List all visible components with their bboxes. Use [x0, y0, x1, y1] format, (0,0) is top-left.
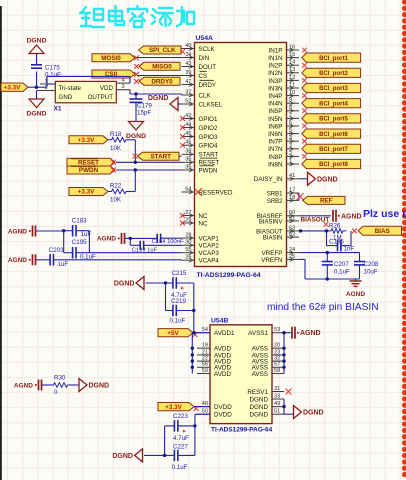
svg-text:DGND: DGND: [249, 404, 268, 411]
svg-text:CS: CS: [199, 73, 208, 80]
svg-text:AVSS: AVSS: [252, 371, 268, 378]
svg-text:Tri-state: Tri-state: [59, 85, 82, 92]
svg-text:SRB2: SRB2: [267, 199, 283, 205]
svg-text:AGND: AGND: [97, 236, 116, 243]
svg-text:BCI_port2: BCI_port2: [319, 71, 348, 77]
ground DGND port (C215): [114, 277, 167, 290]
svg-text:43: 43: [185, 61, 191, 67]
svg-text:GPIO1: GPIO1: [199, 116, 218, 123]
net label RESET: [67, 158, 182, 166]
svg-text:AVDD1: AVDD1: [214, 330, 235, 337]
capacitor C219 0.1uF: [166, 283, 196, 333]
svg-text:TI-ADS1299-PAG-64: TI-ADS1299-PAG-64: [211, 427, 273, 434]
svg-text:C184 100nF: C184 100nF: [152, 239, 184, 245]
wire AVSS rail to AGND: [282, 331, 291, 374]
svg-text:49: 49: [274, 401, 280, 407]
net label MISO0: [134, 62, 180, 70]
svg-text:20: 20: [274, 343, 280, 349]
svg-text:MISO0: MISO0: [152, 64, 172, 71]
capacitor C195 0.1uF: [64, 231, 96, 261]
svg-text:C195: C195: [72, 239, 87, 246]
svg-text:+3.3V: +3.3V: [165, 404, 182, 411]
svg-text:DGND: DGND: [89, 383, 110, 390]
svg-text:+3.3V: +3.3V: [78, 137, 95, 144]
svg-text:26: 26: [185, 255, 191, 261]
svg-text:START: START: [150, 153, 171, 160]
net label MOSI0: [92, 54, 182, 62]
svg-text:R18: R18: [110, 131, 122, 138]
svg-text:VREFN: VREFN: [261, 257, 283, 264]
svg-text:GND: GND: [59, 94, 73, 101]
svg-text:CLK: CLK: [199, 92, 212, 99]
svg-text:44: 44: [185, 122, 191, 128]
svg-text:IN1N: IN1N: [268, 55, 283, 62]
svg-text:BCI_port1: BCI_port1: [319, 56, 348, 62]
svg-text:52: 52: [185, 98, 191, 104]
ground DGND below X1 pin2: [26, 91, 46, 118]
svg-text:23: 23: [274, 349, 280, 355]
svg-text:DVDD: DVDD: [214, 412, 232, 419]
capacitor C175: [31, 54, 61, 88]
svg-text:C183: C183: [72, 217, 87, 224]
svg-text:C207: C207: [334, 261, 349, 268]
svg-text:AVSS1: AVSS1: [248, 330, 268, 337]
capacitor C199 1uF: [130, 238, 181, 253]
svg-text:15pF: 15pF: [137, 110, 151, 117]
U54A left pins: [180, 43, 233, 265]
svg-text:36: 36: [185, 157, 191, 163]
note Plz use th: [363, 208, 406, 220]
net label BIASOUT text: [301, 217, 330, 227]
svg-text:0.1uF: 0.1uF: [172, 464, 188, 471]
svg-text:DGND: DGND: [126, 133, 146, 140]
svg-text:AGND: AGND: [341, 213, 362, 220]
svg-text:IN6N: IN6N: [268, 131, 283, 138]
ground AGND at AVSS1: [292, 327, 321, 339]
svg-text:BIASINV: BIASINV: [259, 219, 283, 225]
capacitor C179: [130, 94, 153, 122]
op-amp U54B ADS1299 body: [210, 318, 273, 434]
svg-text:C219: C219: [171, 298, 186, 305]
wire BIASOUT node: [299, 229, 329, 232]
svg-text:VDD: VDD: [100, 85, 114, 92]
svg-text:C208: C208: [364, 261, 379, 268]
svg-text:DOUT: DOUT: [199, 64, 217, 71]
svg-text:DGND: DGND: [317, 176, 338, 183]
svg-text:OUTPUT: OUTPUT: [88, 94, 114, 101]
svg-text:IN1P: IN1P: [269, 47, 283, 54]
ground DGND (R30): [71, 379, 109, 392]
svg-text:+3.3V: +3.3V: [4, 84, 21, 91]
svg-text:SPI_CLK: SPI_CLK: [149, 47, 176, 54]
net label DRDY0: [134, 77, 180, 85]
svg-text:AGND: AGND: [8, 257, 27, 264]
wire to VCAP4: [54, 259, 182, 261]
capacitor C207 0.1uF: [322, 253, 350, 279]
svg-text:C203: C203: [49, 247, 64, 254]
svg-text:DGND: DGND: [303, 410, 324, 417]
svg-text:34: 34: [185, 52, 191, 58]
power flag +3.3V (U54B): [158, 403, 199, 412]
ground AGND at BIASREF: [299, 210, 362, 222]
svg-text:IN7N: IN7N: [268, 146, 283, 153]
capacitor C203 1uF: [49, 247, 69, 268]
svg-text:4.7uF: 4.7uF: [173, 435, 189, 442]
svg-text:IN5N: IN5N: [268, 116, 283, 123]
capacitor C227 0.1uF: [163, 426, 195, 471]
svg-text:22: 22: [202, 356, 208, 362]
port BCI_port8: [302, 159, 361, 168]
net label REF (SRB): [297, 193, 346, 205]
capacitor C185 1nF: [327, 231, 355, 253]
svg-text:10K: 10K: [110, 197, 122, 204]
note mind the 62# pin BIASIN: [267, 302, 379, 313]
svg-text:46: 46: [185, 140, 191, 146]
svg-text:X1: X1: [54, 106, 62, 113]
svg-text:55: 55: [185, 247, 191, 253]
ground AGND (C184/C199): [97, 233, 132, 244]
port BCI_port6: [302, 129, 361, 138]
oscillator X1 body: [54, 81, 117, 112]
op-amp U54A ADS1299 body: [195, 35, 287, 279]
right red dotted page edge: [402, 0, 406, 477]
ground DGND below C179: [126, 122, 146, 141]
svg-text:REF: REF: [320, 198, 333, 205]
svg-text:DGND: DGND: [26, 38, 46, 45]
svg-text:28: 28: [185, 232, 191, 238]
ground AGND (C183/C195): [8, 226, 66, 237]
svg-text:DGND: DGND: [249, 412, 268, 419]
svg-text:21: 21: [202, 349, 208, 355]
net label BIAS: [352, 226, 402, 235]
svg-text:DVDD: DVDD: [214, 404, 232, 411]
resistor R26 1M: [328, 222, 347, 241]
wire +3.3V to DVDD: [194, 406, 210, 408]
wire VDD loop over X1: [47, 76, 130, 84]
port BCI_port2: [302, 68, 361, 77]
svg-text:BIASIN: BIASIN: [263, 236, 283, 242]
no-connect X marks on INxP pins: [302, 48, 307, 159]
ground AGND below C207/C208: [346, 279, 365, 298]
svg-text:SRB1: SRB1: [267, 191, 283, 197]
capacitor C183 1uF: [64, 217, 92, 238]
wire R22 to PWDN net: [130, 170, 136, 192]
svg-text:40: 40: [185, 43, 191, 49]
svg-text:IN8P: IN8P: [269, 154, 283, 161]
svg-text:IN5P: IN5P: [269, 108, 283, 115]
svg-text:51: 51: [274, 409, 280, 415]
svg-text:NC: NC: [199, 220, 208, 227]
svg-text:VCAP4: VCAP4: [199, 258, 220, 265]
left page edge: [0, 6, 2, 480]
wire AVDD rail: [191, 331, 210, 374]
svg-text:59: 59: [202, 368, 208, 374]
svg-text:AGND: AGND: [346, 291, 365, 298]
wire R18 to RESET net: [130, 140, 136, 163]
U54B right pins: [247, 327, 284, 419]
svg-text:0: 0: [54, 389, 58, 396]
svg-text:PWDN: PWDN: [79, 167, 99, 174]
svg-text:BCI_port8: BCI_port8: [319, 162, 348, 168]
svg-text:PWDN: PWDN: [199, 167, 218, 174]
ground DGND at DAISY_IN: [299, 172, 338, 185]
wire to VCAP3: [89, 252, 181, 254]
wire DGND rail right: [282, 399, 293, 414]
resistor R22 10K: [108, 183, 130, 204]
wire VREFN to AGND rail: [299, 259, 360, 280]
svg-text:IN4N: IN4N: [268, 101, 283, 108]
svg-text:BCI_port6: BCI_port6: [319, 132, 348, 138]
power flag +3.3V (X1): [1, 83, 28, 91]
resistor R30 0: [50, 375, 71, 397]
svg-text:10uF: 10uF: [364, 269, 378, 276]
X1 pin 1: [40, 78, 55, 84]
svg-text:BCI_port4: BCI_port4: [319, 101, 348, 107]
ground DGND port (C227): [112, 449, 164, 462]
svg-text:58: 58: [274, 368, 280, 374]
port BCI_port4: [302, 99, 361, 108]
svg-text:IN6P: IN6P: [269, 123, 283, 130]
power flag +3.3V (R18): [69, 136, 108, 144]
svg-text:35: 35: [185, 164, 191, 170]
svg-text:AGND: AGND: [14, 382, 33, 389]
ground AGND (C203): [8, 254, 50, 265]
svg-text:10K: 10K: [110, 145, 122, 152]
ground DGND port (U54B right): [294, 406, 324, 419]
X mark RESV1: [286, 389, 292, 395]
svg-text:AVDD: AVDD: [214, 371, 231, 378]
svg-text:C223: C223: [173, 413, 188, 420]
svg-text:37: 37: [185, 89, 191, 95]
port BCI_port7: [302, 144, 361, 153]
wire +3.3V to X1 pin1: [28, 84, 55, 89]
net label CS0: [92, 70, 182, 78]
svg-text:DGND: DGND: [112, 453, 133, 460]
U54B left pins: [197, 327, 235, 419]
svg-text:DGND: DGND: [148, 95, 169, 102]
svg-text:IN2P: IN2P: [269, 63, 283, 70]
svg-text:DRDY: DRDY: [199, 82, 217, 89]
svg-text:56: 56: [202, 362, 208, 368]
svg-text:45: 45: [185, 131, 191, 137]
svg-text:DRDY0: DRDY0: [151, 78, 173, 85]
capacitor C184 100nF: [130, 234, 184, 245]
net label PWDN: [67, 166, 182, 174]
svg-text:R22: R22: [110, 183, 122, 190]
svg-text:47: 47: [185, 79, 191, 85]
net label SPI_CLK: [139, 46, 186, 54]
svg-text:START: START: [199, 152, 219, 159]
svg-text:39: 39: [185, 70, 191, 76]
X1 pin 3: [116, 84, 130, 90]
svg-text:TI-ADS1299-PAG-64: TI-ADS1299-PAG-64: [197, 272, 261, 279]
svg-text:33: 33: [274, 393, 280, 399]
wire VREFP rail: [299, 251, 360, 254]
wire DVDD 50 to cap rail: [193, 414, 210, 455]
svg-text:NC: NC: [199, 213, 208, 220]
svg-text:+5V: +5V: [167, 330, 179, 337]
svg-text:DGND: DGND: [249, 396, 268, 403]
svg-text:IN4P: IN4P: [269, 93, 283, 100]
svg-text:C215: C215: [172, 270, 187, 277]
svg-text:C185: C185: [329, 239, 344, 246]
svg-text:CLKSEL: CLKSEL: [199, 101, 223, 108]
svg-text:DGND: DGND: [114, 281, 135, 288]
svg-text:C175: C175: [45, 64, 60, 71]
svg-text:32: 32: [274, 356, 280, 362]
svg-text:C227: C227: [173, 444, 188, 451]
ground DGND at CLKSEL: [148, 95, 182, 111]
svg-text:DAISY_IN: DAISY_IN: [254, 176, 283, 183]
svg-text:0.1uF: 0.1uF: [45, 72, 61, 79]
svg-text:IN3N: IN3N: [268, 85, 283, 92]
svg-text:U54A: U54A: [196, 35, 213, 42]
svg-text:CS0: CS0: [105, 71, 118, 78]
svg-text:RESV1: RESV1: [247, 389, 268, 396]
svg-text:VCAP3: VCAP3: [199, 250, 220, 257]
port BCI_port3: [302, 83, 361, 92]
X1 pin 4: [116, 77, 130, 83]
svg-text:GPIO4: GPIO4: [199, 143, 218, 150]
wire OUTPUT to CLK pin: [130, 90, 182, 96]
svg-text:IN2N: IN2N: [268, 70, 283, 77]
port BCI_port1: [302, 53, 361, 62]
svg-text:SCLK: SCLK: [199, 46, 216, 53]
resistor R18 10K: [108, 131, 130, 152]
capacitor C223 4.7uF: [165, 413, 195, 442]
svg-text:4: 4: [121, 77, 124, 83]
svg-text:BIAS: BIAS: [375, 228, 390, 235]
U54A right pins: [254, 44, 299, 263]
svg-text:53: 53: [274, 327, 280, 333]
svg-text:38: 38: [185, 149, 191, 155]
svg-text:U54B: U54B: [211, 318, 228, 325]
svg-text:VCAP1: VCAP1: [199, 235, 220, 242]
svg-text:AGND: AGND: [300, 330, 321, 337]
X1 pin 2: [37, 85, 56, 91]
title text 钽电容添加 (cyan): [80, 6, 194, 27]
svg-text:BCI_port5: BCI_port5: [319, 117, 348, 123]
ground AGND (R30): [14, 380, 52, 391]
capacitor C215 4.7uF: [166, 270, 194, 299]
svg-text:GPIO2: GPIO2: [199, 125, 218, 132]
svg-text:30: 30: [185, 240, 191, 246]
svg-text:AGND: AGND: [8, 228, 27, 235]
svg-text:RESET: RESET: [78, 160, 99, 167]
svg-text:IN8N: IN8N: [268, 161, 283, 168]
power flag +5V: [158, 329, 198, 337]
svg-text:MOSI0: MOSI0: [101, 55, 121, 62]
svg-text:Plz use th: Plz use th: [363, 208, 406, 220]
capacitor C208 10uF: [354, 253, 379, 279]
svg-text:C199 1uF: C199 1uF: [132, 248, 158, 254]
ground DGND above C175: [26, 38, 46, 54]
svg-text:DIN: DIN: [199, 55, 210, 62]
svg-text:R30: R30: [54, 375, 66, 382]
svg-text:42: 42: [185, 113, 191, 119]
port BCI_port5: [302, 114, 361, 123]
svg-text:BCI_port7: BCI_port7: [319, 147, 348, 153]
svg-text:19: 19: [202, 343, 208, 349]
svg-text:BIASOUT: BIASOUT: [301, 217, 330, 224]
svg-text:0.1uF: 0.1uF: [170, 318, 186, 325]
svg-text:IN7P: IN7P: [269, 139, 283, 146]
svg-text:C179: C179: [137, 103, 152, 110]
svg-text:mind the 62# pin BIASIN: mind the 62# pin BIASIN: [267, 302, 379, 313]
svg-text:0.1uF: 0.1uF: [334, 269, 350, 276]
svg-text:+3.3V: +3.3V: [78, 189, 95, 196]
svg-text:GPIO3: GPIO3: [199, 134, 218, 141]
svg-text:3: 3: [121, 84, 124, 90]
svg-text:DGND: DGND: [26, 111, 46, 118]
svg-text:1nF: 1nF: [344, 246, 355, 253]
svg-text:RESERVED: RESERVED: [199, 189, 233, 196]
svg-text:R26: R26: [329, 222, 341, 229]
svg-text:31: 31: [274, 386, 280, 392]
svg-text:1uF: 1uF: [58, 261, 69, 268]
svg-text:BIASOUT: BIASOUT: [256, 229, 283, 235]
net label START: [133, 152, 182, 160]
svg-text:29: 29: [185, 217, 191, 223]
svg-text:64: 64: [185, 186, 191, 192]
power flag +3.3V (R22): [69, 188, 108, 196]
svg-text:57: 57: [274, 362, 280, 368]
svg-text:27: 27: [185, 210, 191, 216]
svg-text:IN3P: IN3P: [269, 78, 283, 85]
svg-text:VCAP2: VCAP2: [199, 243, 220, 250]
svg-text:BCI_port3: BCI_port3: [319, 86, 348, 92]
